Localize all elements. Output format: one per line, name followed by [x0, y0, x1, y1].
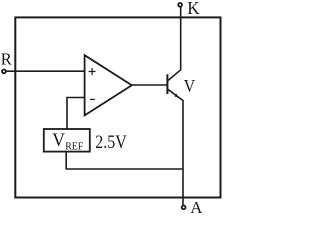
- op-amp - symbol: [90, 98, 95, 100]
- terminal R pad: [2, 70, 6, 74]
- voltage reference VREF box: [44, 129, 90, 152]
- op-amp + symbol: [89, 68, 96, 75]
- svg-text:R: R: [1, 50, 13, 69]
- transistor V base bar: [166, 74, 168, 94]
- wire VREF to ground rail: [66, 152, 183, 169]
- enclosure box: [15, 17, 220, 197]
- transistor V collector and wire to terminal K: [167, 7, 180, 81]
- svg-text:K: K: [187, 0, 200, 18]
- terminal K pad: [178, 3, 182, 7]
- svg-text:A: A: [190, 198, 203, 213]
- svg-text:V: V: [52, 130, 65, 151]
- transistor V emitter arrow: [174, 94, 179, 98]
- wire op-amp output to transistor base: [132, 84, 167, 86]
- terminal A pad: [182, 205, 186, 209]
- wire R to op-amp + input: [6, 70, 85, 72]
- transistor V emitter and wire to terminal A: [168, 89, 183, 205]
- svg-text:V: V: [184, 76, 195, 96]
- op-amp U1: [85, 55, 132, 115]
- wire op-amp - input to VREF: [67, 98, 85, 130]
- svg-text:2.5V: 2.5V: [95, 132, 127, 153]
- svg-text:REF: REF: [65, 141, 83, 152]
